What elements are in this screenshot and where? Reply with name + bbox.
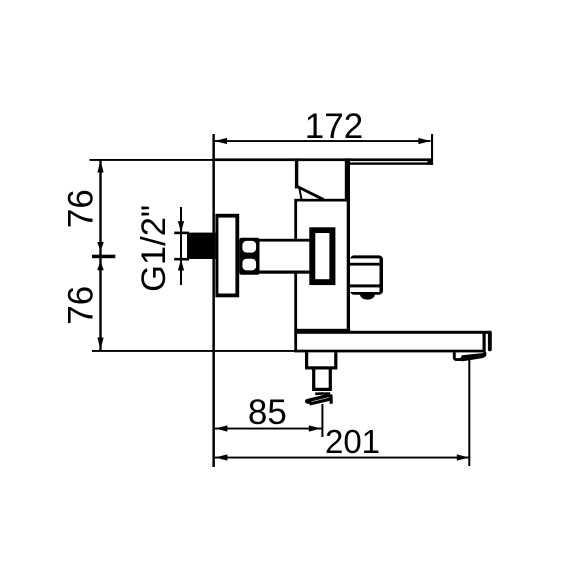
svg-text:201: 201 (325, 423, 380, 460)
faucet body right edge (347, 158, 350, 333)
hose tip zigzag (305, 392, 331, 404)
dimension line G1/2 vertical (174, 207, 189, 285)
spout top line (294, 331, 491, 334)
thread stub (black) G1/2 (187, 233, 215, 259)
dimension line 201 (215, 454, 469, 460)
extension line right vertical (spout end top) (431, 134, 433, 165)
wall flange escutcheon (215, 214, 239, 297)
top plate bottom line right (348, 162, 432, 164)
extension line top-left horizontal (plate top extended) (90, 159, 214, 161)
hose connector segment 2 (312, 370, 332, 392)
hex nut (239, 238, 260, 275)
dimension line 85 (215, 425, 322, 431)
handle lever diagonal (296, 186, 323, 200)
handle lever left edge (295, 158, 298, 188)
extension line right vertical (spout tip) (468, 358, 470, 467)
spout bottom line (294, 350, 485, 353)
body bottom thickening (294, 329, 350, 331)
svg-text:76: 76 (62, 189, 101, 228)
faucet body left edge upper (294, 199, 297, 239)
spout right inner edge (483, 333, 486, 352)
dimension line 172 (215, 138, 431, 144)
top plate right end cap (427, 159, 432, 165)
spout right end cap (488, 331, 492, 351)
faucet body left edge lower (294, 274, 297, 352)
dimension line 76/76 vertical (92, 160, 115, 350)
extension line bottom-left horizontal (spout bottom extended) (92, 350, 295, 352)
cartridge frame (thick rectangle) (309, 227, 335, 285)
svg-text:76: 76 (62, 286, 101, 325)
aerator nub under spout (454, 352, 486, 361)
handle lever inner line (299, 187, 301, 200)
stem (wall supply pipe) (260, 239, 310, 274)
extension line left vertical (wall face) (212, 134, 215, 467)
top plate (spout/handle plate) top line (213, 158, 432, 161)
diverter knob right (350, 255, 383, 294)
svg-text:172: 172 (305, 107, 363, 146)
extension line hose vertical (321, 404, 323, 437)
svg-text:85: 85 (248, 393, 287, 432)
hose connector segment 1 (305, 352, 337, 369)
body top line (294, 199, 348, 202)
knob dome below (360, 294, 375, 299)
handle lever right edge (345, 158, 349, 200)
svg-text:G1/2": G1/2" (135, 205, 173, 292)
